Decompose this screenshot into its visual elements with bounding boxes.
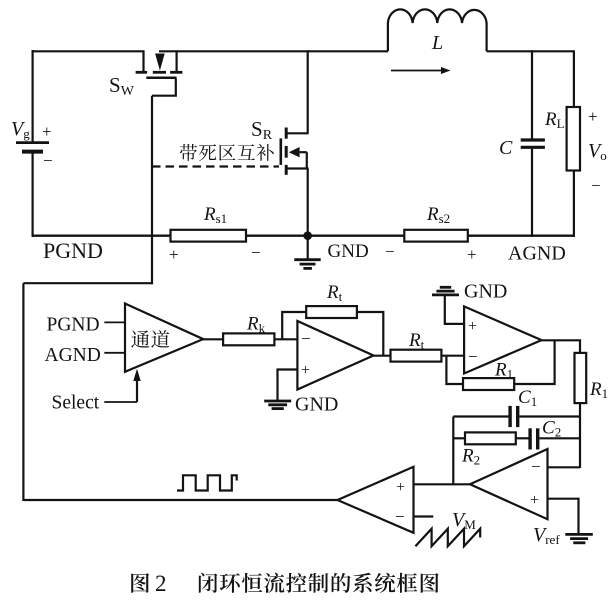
wire gate xyxy=(151,96,153,285)
svg-text:−: − xyxy=(531,457,541,476)
capacitor C2 xyxy=(530,428,538,449)
svg-text:+: + xyxy=(588,107,598,126)
wire xyxy=(278,370,298,401)
wire xyxy=(519,415,580,417)
svg-text:+: + xyxy=(468,318,477,335)
waveform sawtooth xyxy=(415,529,480,547)
svg-text:−: − xyxy=(395,507,405,526)
wire xyxy=(446,356,463,384)
svg-text:GND: GND xyxy=(464,281,507,303)
svg-text:+: + xyxy=(169,245,179,264)
battery Vg xyxy=(16,50,49,237)
resistor Rk xyxy=(223,333,274,345)
caption xyxy=(131,571,438,596)
svg-text:C: C xyxy=(499,137,513,159)
ground xyxy=(565,534,593,542)
svg-text:AGND: AGND xyxy=(508,243,566,265)
ground xyxy=(432,287,459,295)
op-amp U2 xyxy=(297,321,373,390)
wire xyxy=(374,355,391,357)
wire xyxy=(453,437,465,439)
inductor L xyxy=(388,9,487,51)
wire xyxy=(516,437,529,439)
wire xyxy=(33,50,144,52)
label 通道 xyxy=(131,330,149,348)
svg-text:−: − xyxy=(591,176,601,195)
wire rail xyxy=(33,234,574,236)
label 带死区互补 xyxy=(180,144,197,161)
wire xyxy=(23,282,153,284)
resistor RL xyxy=(567,50,580,237)
resistor Rs2 xyxy=(404,230,468,242)
wire xyxy=(453,415,508,417)
svg-text:+: + xyxy=(301,362,310,379)
waveform square xyxy=(177,475,237,490)
wire xyxy=(203,338,223,340)
resistor Rs1 xyxy=(171,230,247,242)
wire xyxy=(548,466,581,468)
label PGND xyxy=(47,315,126,336)
wire dashed xyxy=(152,165,279,167)
label AGND xyxy=(45,345,126,366)
wire xyxy=(159,50,388,52)
wire xyxy=(274,338,297,340)
svg-text:PGND: PGND xyxy=(47,315,100,336)
svg-text:AGND: AGND xyxy=(45,345,101,366)
ground xyxy=(294,236,320,269)
wire xyxy=(414,483,471,485)
svg-text:−: − xyxy=(468,347,478,366)
svg-text:Select: Select xyxy=(52,393,100,414)
label polarity xyxy=(385,242,477,264)
wire xyxy=(22,283,24,501)
wire xyxy=(441,355,464,357)
svg-text:GND: GND xyxy=(295,394,338,416)
resistor R1 vert xyxy=(575,353,587,403)
wire xyxy=(23,499,337,501)
resistor R2 xyxy=(465,432,516,444)
wire xyxy=(487,50,574,52)
node junction xyxy=(303,231,312,240)
op-amp U5 xyxy=(338,467,414,533)
transistor SR xyxy=(281,128,309,238)
svg-text:+: + xyxy=(530,492,539,509)
block channel xyxy=(125,304,203,372)
op-amp U4 xyxy=(470,449,548,519)
wire xyxy=(542,340,581,353)
wire xyxy=(514,340,554,384)
svg-text:−: − xyxy=(43,151,53,170)
op-amp U3 xyxy=(464,306,541,373)
arrow select xyxy=(133,369,140,402)
svg-text:−: − xyxy=(251,243,261,262)
wire xyxy=(539,437,580,439)
wire xyxy=(282,312,306,339)
wire xyxy=(452,417,454,486)
wire xyxy=(357,312,383,356)
svg-text:2: 2 xyxy=(155,571,167,596)
transistor Sw xyxy=(136,50,183,95)
label Vo xyxy=(588,107,607,195)
svg-text:GND: GND xyxy=(328,241,369,262)
wire xyxy=(445,296,464,324)
wire xyxy=(548,499,579,534)
capacitor C1 xyxy=(510,406,518,427)
label polarity xyxy=(169,243,261,264)
svg-text:PGND: PGND xyxy=(43,238,103,263)
resistor R1 fb xyxy=(463,378,514,390)
label battery polarity xyxy=(42,122,53,170)
svg-text:−: − xyxy=(301,329,311,348)
arrow current xyxy=(391,67,451,74)
ground xyxy=(264,401,291,409)
label Select xyxy=(52,393,138,414)
svg-text:+: + xyxy=(42,122,52,141)
wire xyxy=(579,403,581,468)
svg-text:−: − xyxy=(385,242,395,261)
svg-text:L: L xyxy=(431,32,443,54)
capacitor C xyxy=(521,50,545,237)
svg-text:+: + xyxy=(396,479,405,496)
svg-text:+: + xyxy=(467,245,477,264)
resistor Rt series xyxy=(391,350,442,362)
resistor Rt xyxy=(306,306,357,318)
wire xyxy=(307,50,309,133)
wire xyxy=(414,515,434,517)
